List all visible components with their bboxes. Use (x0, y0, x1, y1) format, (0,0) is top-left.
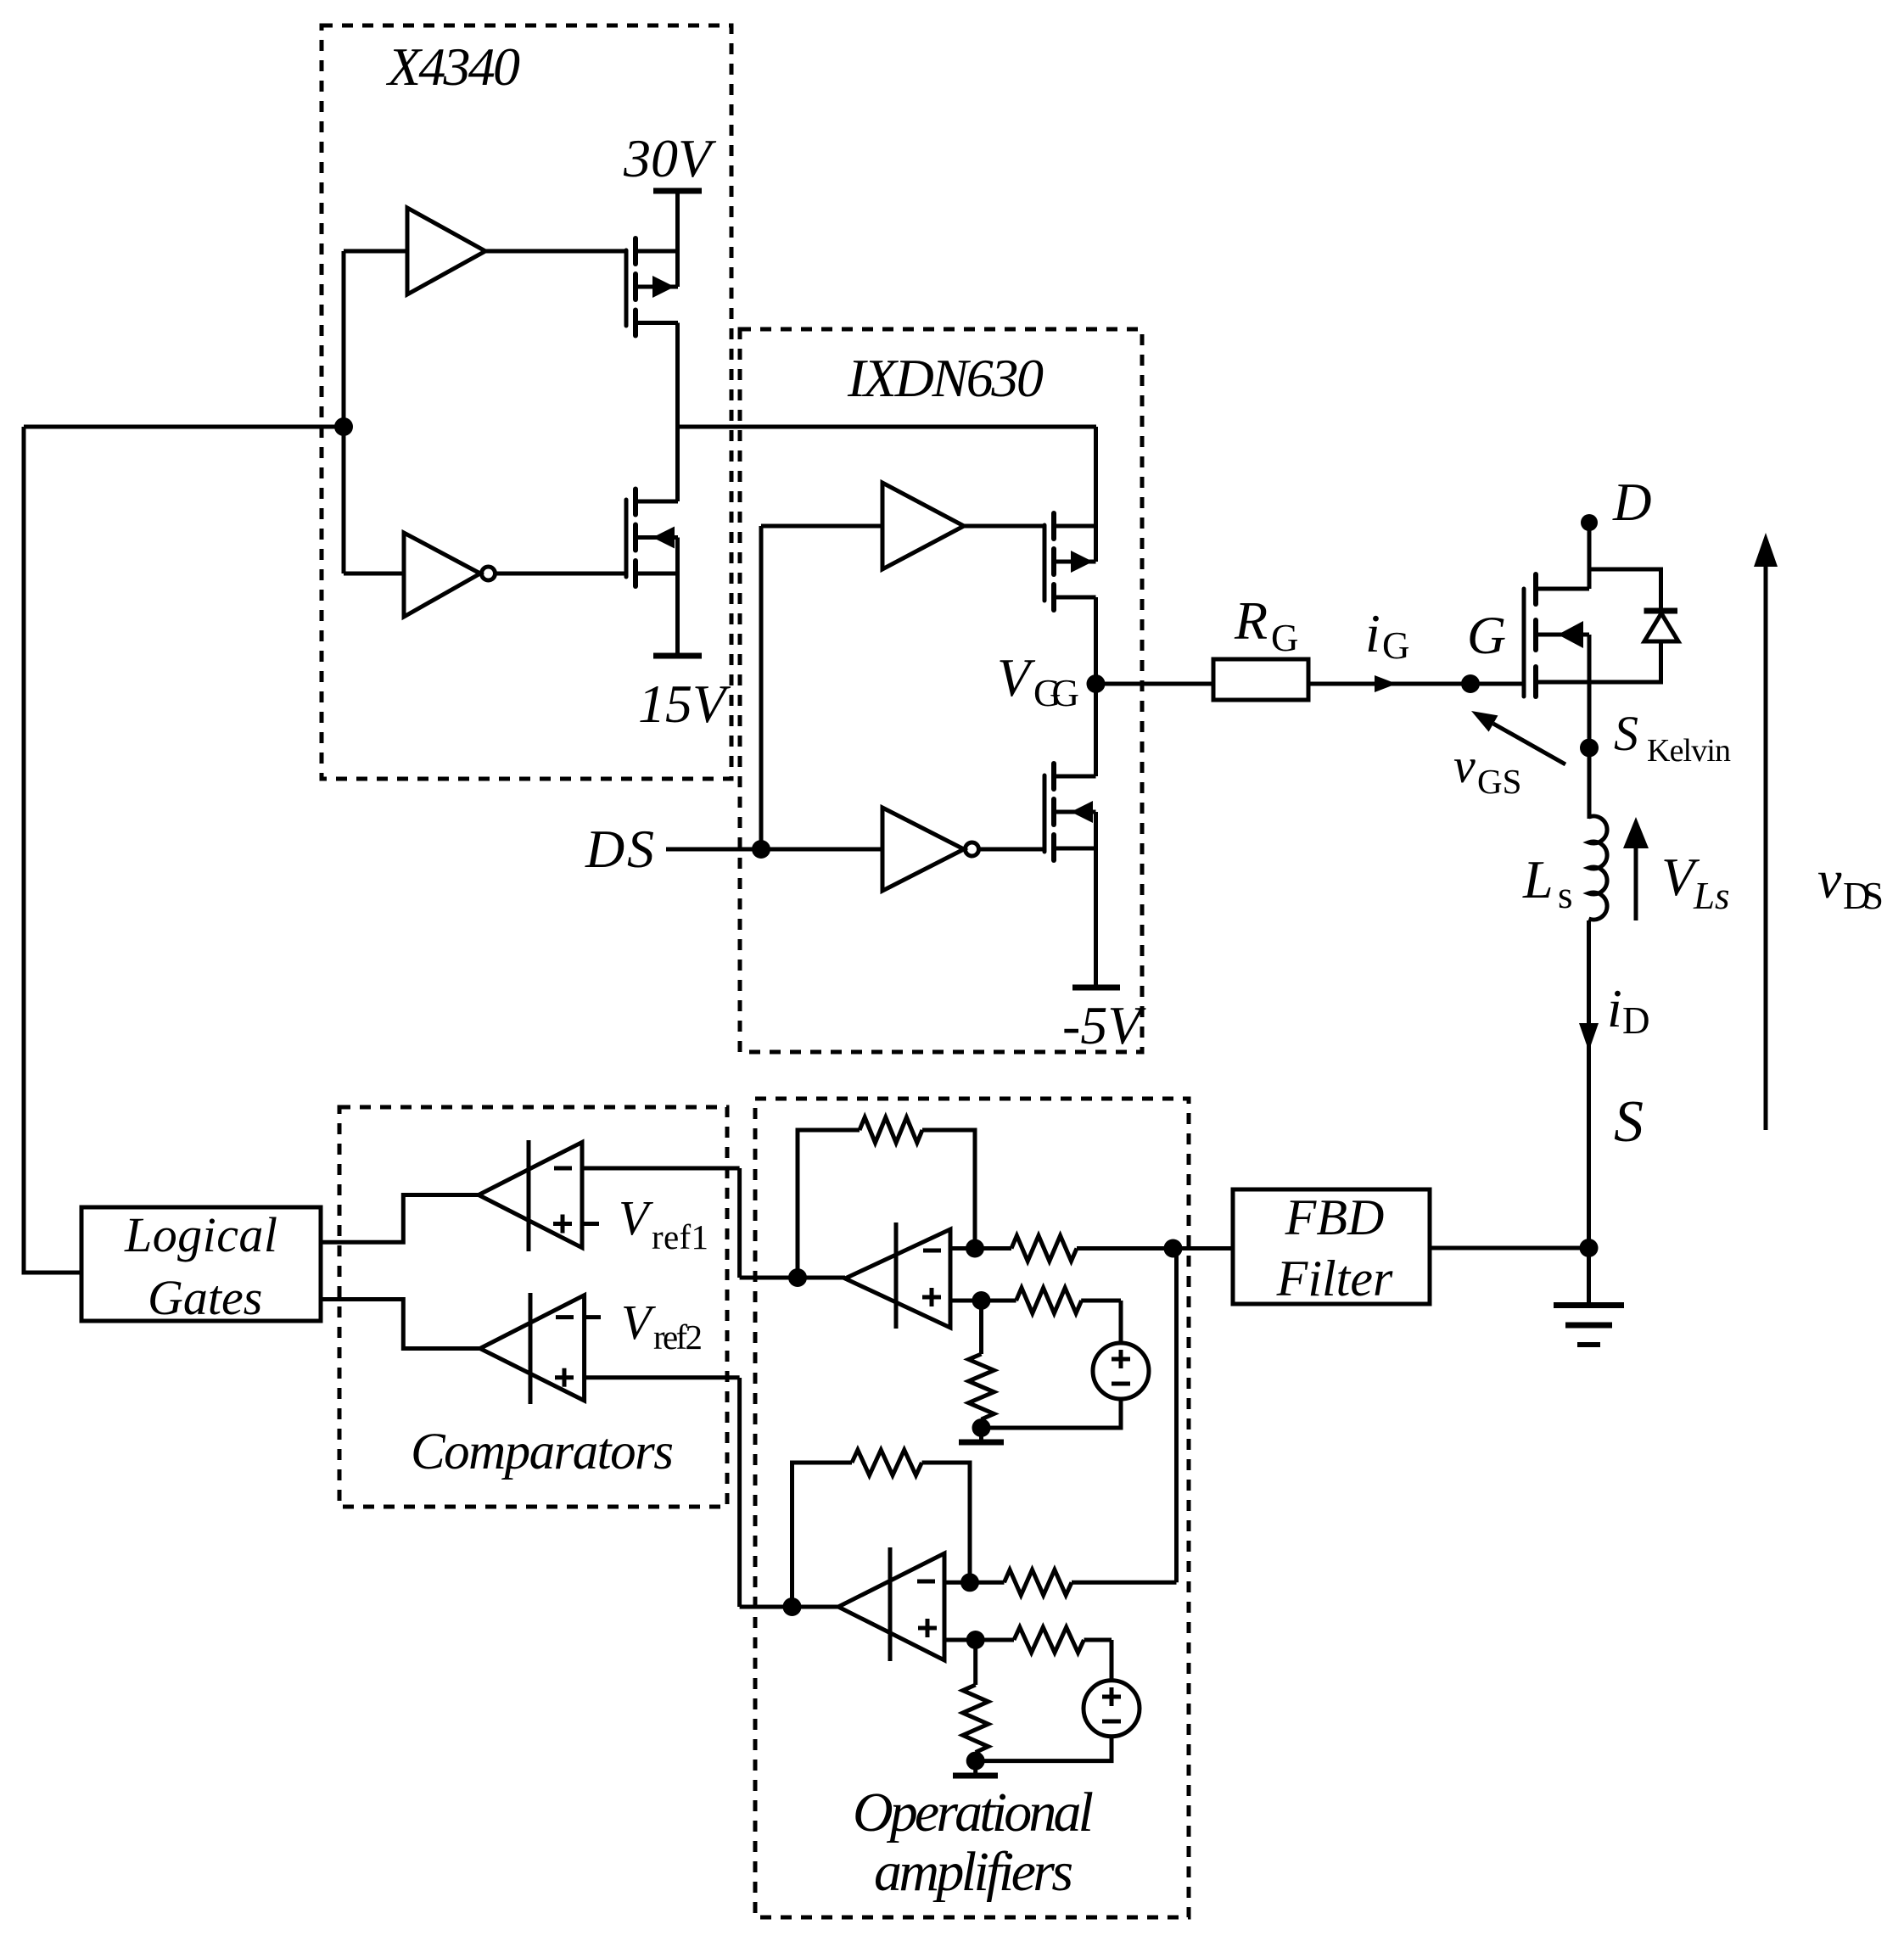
arrow vGS (1453, 711, 1565, 801)
resistor RG (1213, 590, 1308, 700)
buffer A3 (IXDN630 top) (761, 483, 1044, 569)
svg-text:ref2: ref2 (653, 1318, 703, 1357)
resistor U1 feedback (798, 1117, 975, 1278)
resistor U2 feedback (792, 1450, 971, 1607)
wire VGG to RG (1096, 682, 1214, 686)
inductor Ls (1522, 816, 1607, 920)
ground main (1554, 1248, 1624, 1345)
svg-text:GS: GS (1477, 762, 1521, 801)
node U2 inverting input (960, 1573, 979, 1592)
inverter A2 (X4340 bottom) (344, 533, 626, 617)
wire M1 drain to output node (675, 323, 680, 428)
svg-text:30V: 30V (623, 128, 717, 188)
buffer A1 (X4340 top) (344, 208, 626, 294)
wire U2 output to comparator2 (737, 1378, 742, 1607)
transistor Q1 main power MOSFET (1524, 574, 1589, 697)
ground U1 (959, 1428, 1004, 1442)
Logical Gates box (81, 1207, 321, 1325)
svg-text:L: L (1522, 849, 1554, 909)
svg-text:v: v (1453, 738, 1476, 793)
wire C1 output to Logical Gates (321, 1195, 479, 1243)
wire FBD to opamp node (1173, 1246, 1234, 1250)
wire drain (1588, 521, 1592, 589)
node D terminal (1581, 473, 1652, 532)
label DS (585, 819, 654, 879)
X4340 dashed box (322, 25, 731, 779)
svg-text:X4340: X4340 (385, 36, 520, 97)
node U2 non-inverting input (944, 1631, 985, 1649)
node U2 ground junction (966, 1752, 985, 1771)
svg-text:IXDN630: IXDN630 (847, 348, 1044, 408)
svg-text:Gates: Gates (148, 1270, 262, 1325)
svg-text:S: S (1614, 1089, 1644, 1155)
svg-text:amplifiers: amplifiers (874, 1841, 1073, 1903)
wire RG to gate with iG arrow (1308, 603, 1524, 692)
svg-text:D: D (1612, 473, 1652, 532)
svg-text:Comparators: Comparators (411, 1424, 674, 1480)
node input junction (334, 251, 353, 573)
Operational amplifiers dashed box (755, 1099, 1189, 1917)
Comparators dashed box (339, 1107, 727, 1507)
wire FBD node to U2 input (1174, 1249, 1179, 1583)
node U1 non-inverting input (950, 1291, 991, 1310)
node VGG (997, 647, 1106, 714)
svg-text:s: s (1558, 874, 1573, 916)
wire Ls to S with iD arrow (1579, 920, 1650, 1248)
wire SKelvin to Ls (1588, 748, 1592, 820)
resistor U1 divider (969, 1301, 994, 1428)
transistor M1 PMOS (X4340 upper) (626, 238, 678, 336)
power 15V supply (638, 538, 731, 735)
wire C2 output to Logical Gates (321, 1300, 480, 1349)
comparator C2 (480, 1293, 585, 1404)
node U1 inverting input (966, 1239, 984, 1258)
svg-text:G: G (1467, 605, 1506, 665)
wire C1 inverting input from U1 (582, 1167, 740, 1171)
arrow vDS (1754, 533, 1884, 1130)
svg-text:Filter: Filter (1276, 1250, 1393, 1306)
svg-text:FBD: FBD (1285, 1189, 1385, 1245)
node U1 ground junction (972, 1418, 991, 1437)
node DS input junction (752, 526, 770, 859)
svg-text:i: i (1365, 603, 1380, 663)
svg-text:Operational: Operational (853, 1782, 1094, 1843)
node FBD junction (1164, 1239, 1183, 1258)
svg-text:Kelvin: Kelvin (1647, 733, 1731, 769)
wire M4 drain to VGG node (1094, 684, 1098, 776)
svg-text:15V: 15V (638, 674, 731, 734)
source V1 (982, 1301, 1150, 1428)
resistor U1 offset (982, 1288, 1122, 1313)
resistor U1 input (950, 1236, 1173, 1262)
svg-text:v: v (1817, 849, 1842, 909)
svg-text:-5V: -5V (1062, 995, 1146, 1055)
IXDN630 dashed box (740, 329, 1142, 1052)
arrow VLs (1623, 817, 1730, 920)
wire C2 non-inverting input from U2 (585, 1375, 740, 1379)
svg-text:G: G (1382, 624, 1410, 667)
wire M3 drain to VGG node (1094, 597, 1098, 684)
svg-text:G: G (1271, 617, 1299, 659)
svg-text:DS: DS (585, 819, 654, 879)
resistor U2 input (944, 1569, 1177, 1595)
resistor U2 divider (963, 1640, 988, 1761)
wire M2 drain to output node (675, 427, 680, 501)
wire C1 vref stub (582, 1222, 599, 1226)
wire left feedback rail (24, 427, 81, 1273)
wire DS input (666, 848, 882, 852)
wire source to FBD (1430, 1246, 1589, 1250)
diode body diode (1589, 569, 1678, 682)
svg-text:DS: DS (1843, 875, 1884, 917)
svg-text:D: D (1622, 999, 1650, 1042)
svg-text:Ls: Ls (1693, 875, 1730, 917)
ground U2 (953, 1761, 998, 1776)
inverter A4 (IXDN630 bottom) (882, 808, 1044, 891)
node G (1461, 605, 1506, 693)
wire U1 output to comparator1 (737, 1168, 742, 1278)
power 30V supply (623, 128, 717, 251)
svg-text:S: S (1614, 706, 1638, 761)
wire C2 vref stub (585, 1315, 601, 1319)
node U1 output (740, 1268, 845, 1287)
transistor M3 PMOS (IXDN630 upper) (1044, 513, 1096, 610)
svg-text:R: R (1234, 590, 1268, 651)
wire source to SKelvin (1588, 635, 1592, 748)
op-amp U1 (845, 1222, 950, 1329)
transistor M4 NMOS (IXDN630 lower) (1044, 764, 1096, 860)
node source junction (1580, 1239, 1599, 1257)
node SKelvin (1580, 706, 1731, 769)
label Vref2 (621, 1295, 703, 1357)
wire rail into M3 source (1094, 427, 1098, 562)
node U2 output (740, 1597, 838, 1616)
resistor U2 offset (976, 1627, 1112, 1653)
svg-text:Logical: Logical (124, 1207, 277, 1262)
comparator C1 (479, 1140, 582, 1251)
transistor M2 NMOS (X4340 lower) (626, 490, 678, 587)
svg-text:i: i (1607, 978, 1622, 1038)
power -5V supply (1062, 812, 1146, 1055)
svg-text:ref1: ref1 (652, 1217, 708, 1256)
source V2 (976, 1640, 1140, 1761)
svg-text:GG: GG (1033, 672, 1079, 714)
op-amp U2 (838, 1547, 944, 1661)
FBD Filter box (1233, 1189, 1430, 1306)
wire X4340 output rail to IXDN630 (678, 425, 1097, 429)
wire input net to X4340 (24, 425, 344, 429)
label Vref1 (619, 1190, 708, 1256)
